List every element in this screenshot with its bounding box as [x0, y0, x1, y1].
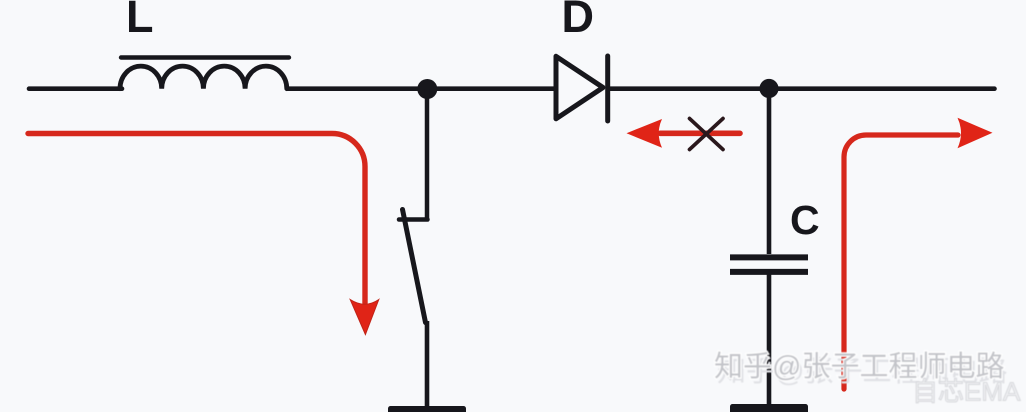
output current path arrow (red): [844, 135, 958, 389]
ground (switch): [388, 406, 466, 412]
wire: switch node down to switch: [425, 89, 430, 220]
diode D1 cathode bar: [605, 56, 610, 121]
wire: input lead left of inductor: [29, 86, 122, 91]
svg-text:L: L: [126, 0, 154, 42]
wire: switch to ground: [425, 321, 430, 408]
wire: diode cathode to output node: [610, 86, 760, 91]
wire: capacitor to ground: [767, 272, 772, 407]
ground (capacitor): [730, 404, 808, 412]
switch S1 blade (open): [403, 210, 426, 323]
wire: inductor to diode anode: [286, 86, 556, 91]
arrowhead (left, blocked current): [627, 119, 663, 148]
inductor core bar: [121, 55, 289, 59]
capacitor C1 bottom plate: [730, 269, 808, 275]
wire: output node to right edge: [769, 86, 995, 91]
svg-text:C: C: [790, 197, 820, 243]
blocked reverse-current arrow shaft (red): [660, 131, 740, 137]
capacitor C1 top plate: [730, 254, 808, 260]
switch S1 top terminal stub: [399, 217, 428, 222]
svg-text:自芯EMA: 自芯EMA: [912, 377, 1021, 407]
arrowhead (right, output current): [958, 118, 993, 148]
diode D1 triangle (anode): [556, 56, 603, 119]
arrowhead (down, charging loop): [350, 300, 379, 335]
X mark (current blocked) stroke 1: [690, 119, 724, 150]
node A junction dot (switch node): [417, 79, 437, 99]
current path arrow (inductor charging loop, red): [28, 134, 365, 304]
svg-text:D: D: [562, 0, 595, 42]
node B junction dot (output node): [759, 79, 778, 98]
inductor L1 winding (4 humps): [120, 66, 287, 89]
wire: output node down to capacitor: [767, 89, 772, 255]
X mark (current blocked) stroke 2: [690, 119, 724, 150]
